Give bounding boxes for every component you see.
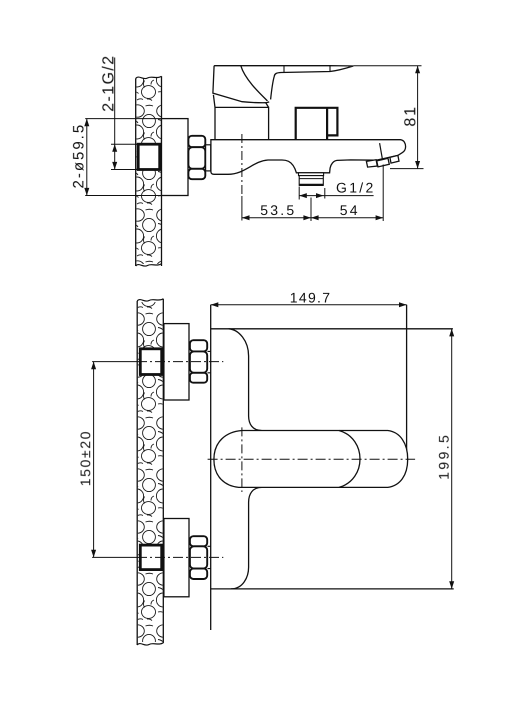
top edge + extension to 199.5 xyxy=(211,328,453,330)
lower hex nut (front view) xyxy=(190,536,211,579)
dimension 53.5 / 54 xyxy=(242,165,383,222)
handle pill (front view) xyxy=(214,431,408,488)
centerline horizontal through pill xyxy=(208,458,416,460)
svg-text:199.5: 199.5 xyxy=(436,433,452,480)
hex nut (side view, top drawing) xyxy=(188,136,205,179)
lower eccentric square xyxy=(140,545,161,570)
lower mounting plate (front view) xyxy=(164,519,189,597)
spacer washer between nut and body xyxy=(206,145,211,171)
dimension 81 xyxy=(353,66,423,169)
svg-text:53.5: 53.5 xyxy=(260,202,296,218)
wall section (top view) xyxy=(136,70,162,272)
svg-text:2-ø59.5: 2-ø59.5 xyxy=(70,123,87,189)
tub outlet stub G1/2 xyxy=(299,173,324,186)
label G1/2 with leader and stub width arrows xyxy=(299,180,375,200)
handle dome curve xyxy=(241,66,268,101)
dimension 2-phi59.5 xyxy=(70,119,161,196)
right edge xyxy=(406,305,408,455)
centerline vertical through valve xyxy=(241,427,243,492)
bottom edge + extension xyxy=(211,588,454,590)
svg-text:54: 54 xyxy=(340,202,360,218)
dimension 149.7 xyxy=(211,289,407,307)
upper eccentric square xyxy=(140,349,161,375)
lever end cap arc xyxy=(339,431,360,488)
raised boss outline (front view) xyxy=(229,329,262,589)
svg-text:2-1G/2: 2-1G/2 xyxy=(100,54,117,111)
svg-text:G1/2: G1/2 xyxy=(336,180,376,196)
dimension 150±20 xyxy=(77,362,96,558)
faucet body bar with spout (side view) xyxy=(211,140,406,175)
handle lever (side view) xyxy=(213,66,353,103)
diverter block on body xyxy=(296,108,338,140)
eccentric square fitting (top view) xyxy=(138,144,160,169)
dimension 199.5 xyxy=(436,329,455,589)
upper mounting plate (front view) xyxy=(164,324,189,400)
upper hex nut (front view) xyxy=(190,340,211,382)
cartridge housing under handle xyxy=(213,95,268,140)
svg-text:150±20: 150±20 xyxy=(77,430,93,486)
wall section (front view) xyxy=(137,293,163,650)
svg-text:149.7: 149.7 xyxy=(290,289,332,305)
left edge / 149.7 extension xyxy=(210,305,212,630)
shower hose elbow fitting xyxy=(366,143,399,167)
dimension 2-1G/2 with leader xyxy=(100,54,138,169)
centerline lower mounting xyxy=(92,556,223,558)
joint tick on lever xyxy=(284,66,330,73)
escutcheon plate (side view) xyxy=(162,119,189,196)
valve centerline (top view) xyxy=(241,134,243,221)
body outline (front view) xyxy=(211,305,454,630)
centerline upper mounting xyxy=(92,361,223,363)
svg-text:81: 81 xyxy=(402,105,419,126)
